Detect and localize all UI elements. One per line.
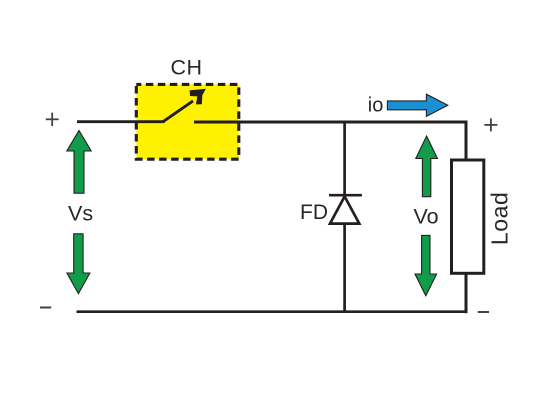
wire from switch right contact to top-right corner <box>194 121 467 124</box>
source voltage arrow Vs up <box>67 131 91 194</box>
wire right vertical upper (corner to load) <box>465 121 468 162</box>
svg-text:io: io <box>368 95 384 117</box>
svg-text:Vs: Vs <box>68 202 93 226</box>
diode FD cathode bar <box>329 194 362 197</box>
output current arrow io (blue) <box>387 94 447 116</box>
switch enclosure (yellow dashed box) CH <box>136 84 239 159</box>
wire diode branch lower <box>343 224 346 313</box>
switch CH lever (diagonal blade) <box>163 101 193 122</box>
svg-text:Vo: Vo <box>414 205 439 229</box>
node - (output negative terminal) <box>478 311 489 313</box>
diode FD triangle <box>330 197 359 224</box>
source voltage arrow Vs down <box>67 234 90 294</box>
load (resistor box) <box>452 160 484 273</box>
svg-text:Load: Load <box>487 192 513 246</box>
output voltage arrow Vo down <box>415 235 437 295</box>
svg-text:FD: FD <box>300 201 328 224</box>
switch CH arrowhead <box>190 89 206 105</box>
node + (source positive terminal) <box>46 113 59 126</box>
node - (source negative terminal) <box>40 307 51 309</box>
svg-text:CH: CH <box>170 56 202 80</box>
wire bottom rail <box>77 310 468 313</box>
wire diode branch upper <box>343 122 346 196</box>
wire right vertical lower (load to bottom rail) <box>465 273 468 314</box>
node + (output positive terminal) <box>484 118 497 131</box>
output voltage arrow Vo up <box>416 136 438 197</box>
wire top-left from source + to switch <box>77 120 165 123</box>
